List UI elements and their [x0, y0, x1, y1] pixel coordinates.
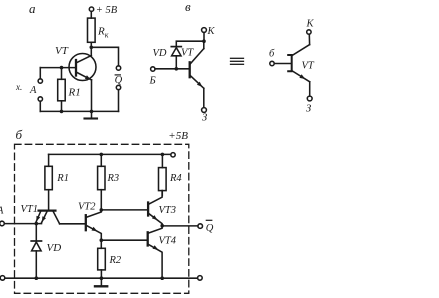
svg-text:VD: VD: [47, 242, 62, 254]
wire input: [4, 223, 41, 225]
svg-text:З: З: [202, 113, 207, 124]
wire emitter: [309, 82, 311, 96]
transistor VT: [69, 54, 96, 81]
label VT: [181, 48, 194, 59]
wire: [39, 68, 41, 79]
label K: [207, 26, 216, 37]
transistor VT1: [36, 211, 60, 224]
transistor VT2: [86, 210, 102, 240]
label Q bar: [115, 75, 123, 86]
label R3: [107, 173, 120, 184]
label Z: [306, 104, 311, 115]
node rail VT4: [160, 276, 164, 280]
wire: [203, 32, 205, 41]
node rail R4: [161, 153, 165, 157]
svg-text:VT: VT: [55, 45, 69, 57]
svg-text:б: б: [16, 127, 23, 142]
svg-text:+5В: +5В: [168, 130, 188, 142]
svg-text:R1: R1: [68, 87, 81, 99]
label VT: [302, 61, 315, 72]
svg-text:Q: Q: [206, 223, 214, 234]
svg-text:VT1: VT1: [21, 204, 39, 215]
terminal K: [202, 28, 207, 33]
svg-text:VT: VT: [181, 48, 194, 59]
label Z: [202, 113, 207, 124]
label R2: [109, 255, 122, 266]
ground: [85, 111, 98, 118]
wire base: [40, 67, 76, 69]
input terminal A: [0, 221, 4, 226]
label +5V: [168, 130, 188, 142]
svg-text:R2: R2: [109, 255, 122, 266]
label v: [185, 0, 191, 14]
wire collector: [308, 34, 310, 44]
wire: [91, 47, 118, 66]
node rail R3: [100, 153, 104, 157]
svg-text:в: в: [185, 0, 191, 14]
bottom rail terminal left: [0, 276, 5, 281]
bottom rail terminal right: [198, 276, 203, 281]
label A: [0, 206, 4, 217]
wire: [176, 41, 204, 46]
diode VD: [171, 47, 181, 56]
node base R1 tap: [60, 66, 64, 70]
label Q bar: [206, 220, 214, 234]
svg-text:VT3: VT3: [159, 205, 177, 216]
wire: [35, 251, 37, 278]
svg-text:A: A: [0, 206, 4, 217]
wire base: [155, 68, 189, 70]
svg-text:VD: VD: [153, 48, 167, 59]
resistor R1: [45, 154, 52, 209]
label +5V: [96, 5, 118, 16]
label VT2: [78, 202, 96, 213]
wire: [35, 224, 37, 241]
svg-text:A: A: [29, 85, 37, 96]
transistor VT multi-emitter: [288, 45, 310, 82]
label VT3: [159, 205, 177, 216]
node K junction: [202, 39, 206, 43]
resistor R2: [98, 240, 106, 278]
wire VT1 collector to VT2 base: [60, 223, 85, 225]
label A: [29, 85, 37, 96]
wire: [90, 11, 92, 18]
node collector junction: [90, 46, 94, 50]
terminal b: [270, 61, 274, 65]
wire output: [162, 225, 198, 227]
svg-text:Б: Б: [149, 76, 156, 87]
wire: [175, 56, 177, 69]
svg-text:б: б: [269, 49, 275, 60]
svg-text:VT: VT: [302, 61, 315, 72]
wire top rail: [49, 153, 171, 155]
wire collector up: [90, 47, 92, 55]
+5V terminal: [171, 153, 175, 157]
transistor VT: [190, 49, 204, 89]
wire emitter down: [91, 80, 93, 112]
transistor VT4: [148, 226, 162, 279]
label VD: [153, 48, 167, 59]
label VD: [47, 242, 62, 254]
node input diode: [35, 222, 39, 226]
terminal Z: [307, 96, 312, 101]
label b: [269, 49, 275, 60]
terminal B: [151, 67, 155, 71]
resistor R4: [159, 154, 167, 195]
svg-text:х.: х.: [15, 82, 22, 92]
input terminal A upper: [38, 79, 42, 83]
wire: [39, 101, 41, 111]
label VT: [55, 45, 69, 57]
svg-text:Q: Q: [115, 75, 123, 86]
ground: [95, 278, 107, 286]
svg-text:а: а: [29, 1, 36, 16]
label K: [306, 18, 315, 29]
svg-text:R4: R4: [169, 173, 182, 184]
svg-text:VT2: VT2: [78, 202, 96, 213]
+5V terminal: [89, 7, 93, 11]
svg-text:R3: R3: [107, 173, 120, 184]
label R1: [56, 173, 69, 184]
wire VT2e to VT4 base: [101, 239, 147, 241]
label B: [149, 76, 156, 87]
label R4: [169, 173, 182, 184]
svg-text:К: К: [306, 18, 315, 29]
resistor R3: [98, 154, 105, 210]
input terminal A lower: [38, 97, 42, 101]
node rail R1: [60, 110, 64, 114]
terminal Z: [202, 108, 207, 113]
node rail R2: [100, 276, 104, 280]
wire collector: [203, 41, 205, 48]
label a: [29, 1, 36, 16]
label VT4: [159, 235, 177, 246]
terminal K: [307, 30, 311, 34]
node output: [160, 224, 164, 228]
svg-text:R1: R1: [56, 173, 69, 184]
wire emitter: [203, 88, 205, 107]
svg-text:К: К: [207, 26, 216, 37]
faint x mark: [15, 82, 22, 92]
output terminal Q lower: [116, 85, 120, 89]
wire base: [274, 63, 290, 65]
wire bottom rail: [5, 277, 198, 279]
node base diode junction: [175, 67, 179, 71]
node rail VD: [35, 276, 39, 280]
wire bottom rail: [40, 110, 118, 112]
diode VD: [31, 241, 41, 251]
dashed enclosure: [15, 144, 189, 293]
svg-text:Rк: Rк: [97, 26, 109, 40]
node VT2 collector: [100, 208, 104, 212]
svg-text:+ 5В: + 5В: [96, 5, 118, 16]
equivalence sign: [231, 58, 244, 64]
output terminal Q upper: [116, 66, 120, 70]
label VT1: [21, 204, 39, 215]
wire VT2c to VT3 base: [101, 209, 147, 211]
resistor Rk: [88, 18, 96, 42]
transistor VT3: [148, 191, 162, 226]
node rail emitter: [90, 110, 94, 114]
svg-text:З: З: [306, 104, 311, 115]
wire: [90, 42, 92, 47]
wire: [118, 90, 120, 112]
output terminal Q: [198, 224, 203, 229]
label b: [16, 127, 23, 142]
node VT2 emitter: [100, 238, 104, 242]
label R1: [68, 87, 81, 99]
label Rk: [97, 26, 109, 40]
svg-text:VT4: VT4: [159, 235, 177, 246]
resistor R1: [58, 68, 65, 112]
